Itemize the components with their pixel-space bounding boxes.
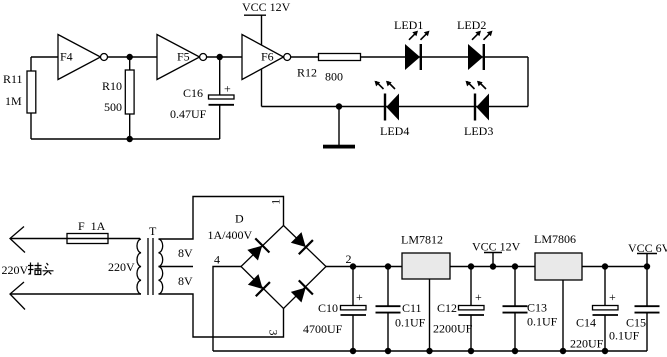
node C13 bottom <box>512 348 518 354</box>
svg-text:C12: C12 <box>437 301 457 315</box>
svg-text:T: T <box>149 224 157 238</box>
svg-text:LM7812: LM7812 <box>401 233 443 247</box>
svg-text:+: + <box>475 290 482 304</box>
svg-text:+: + <box>356 290 363 304</box>
svg-text:C16: C16 <box>183 86 203 100</box>
node C10 top <box>350 263 356 269</box>
svg-text:0.1UF: 0.1UF <box>609 329 640 343</box>
svg-text:220UF: 220UF <box>570 337 604 351</box>
node C13 top <box>512 263 518 269</box>
node C11 top <box>385 263 391 269</box>
LED LED1 <box>394 18 430 70</box>
svg-text:LED2: LED2 <box>457 18 486 32</box>
wire secondary bottom tap to bridge pin3 <box>159 294 284 337</box>
wire secondary top tap to bridge pin1 <box>159 197 284 240</box>
core <box>148 238 153 295</box>
svg-text:C11: C11 <box>402 301 422 315</box>
svg-text:0.1UF: 0.1UF <box>527 315 558 329</box>
svg-text:8V: 8V <box>178 246 193 260</box>
node VCC12 tap <box>490 263 496 269</box>
ground <box>323 107 355 149</box>
label 220V plug (220V insert-head) <box>2 263 54 278</box>
node C12 top <box>468 263 474 269</box>
svg-text:0.47UF: 0.47UF <box>170 107 207 121</box>
capacitor C15 <box>609 267 660 352</box>
diode bridge bottom-right <box>289 280 313 304</box>
svg-text:220V: 220V <box>108 260 135 274</box>
wire positive rail <box>326 266 647 268</box>
wire secondary centre tap stub <box>159 266 194 268</box>
wire F6 output to R12 <box>291 56 319 58</box>
wire F5 output to F6 input <box>207 56 242 58</box>
node LM7806 gnd <box>560 348 566 354</box>
node C14 top <box>602 263 608 269</box>
plug 220V prong lower <box>10 282 25 310</box>
primary coil <box>137 239 141 294</box>
LED LED3 <box>464 81 493 138</box>
svg-text:2200UF: 2200UF <box>433 322 473 336</box>
svg-text:R12: R12 <box>297 66 317 80</box>
svg-text:VCC 12V: VCC 12V <box>242 0 291 14</box>
svg-text:220V: 220V <box>2 263 29 277</box>
svg-text:C13: C13 <box>527 301 547 315</box>
node LM7812 gnd <box>426 348 432 354</box>
wire right side vertical <box>527 57 529 107</box>
regulator LM7812 <box>401 233 450 352</box>
LED LED2 <box>457 18 493 70</box>
diode bridge top-left <box>246 238 270 262</box>
node C14 bottom <box>602 348 608 354</box>
inverter F4 <box>58 35 108 80</box>
wire ground rail bottom <box>213 350 647 352</box>
capacitor C13 <box>503 267 558 352</box>
svg-text:LED3: LED3 <box>464 124 493 138</box>
svg-text:F5: F5 <box>177 50 190 64</box>
regulator LM7806 <box>534 232 582 351</box>
wire bridge pin4 to ground rail <box>213 267 241 352</box>
svg-text:F4: F4 <box>60 50 73 64</box>
inverter F5 <box>157 35 207 80</box>
power VCC 12V (top) <box>242 0 291 46</box>
node C11 bottom <box>385 348 391 354</box>
node junction at R10 top <box>127 54 133 60</box>
svg-text:R11: R11 <box>3 72 23 86</box>
svg-text:0.1UF: 0.1UF <box>395 316 426 330</box>
capacitor C14 <box>570 267 618 352</box>
node junction at R10 bottom <box>127 136 133 142</box>
node C15 top <box>644 263 650 269</box>
svg-text:+: + <box>224 82 231 96</box>
inverter F6 <box>242 35 291 80</box>
LED LED4 <box>375 81 410 138</box>
secondary coil <box>159 239 163 294</box>
svg-text:4: 4 <box>214 253 220 267</box>
power VCC 12V (rail) <box>472 240 521 267</box>
svg-text:D: D <box>235 212 244 226</box>
svg-text:+: + <box>609 290 616 304</box>
svg-text:F6: F6 <box>261 50 274 64</box>
wire top LED row <box>361 56 529 58</box>
bridge rectifier D <box>208 199 352 336</box>
svg-text:4700UF: 4700UF <box>303 322 343 336</box>
capacitor C12 <box>433 267 484 352</box>
svg-text:C15: C15 <box>626 316 646 330</box>
node junction at ground tap <box>336 103 342 109</box>
svg-text:1A/400V: 1A/400V <box>208 228 253 242</box>
resistor R10 <box>102 57 134 139</box>
wire mains lower <box>10 293 141 295</box>
svg-text:8V: 8V <box>178 274 193 288</box>
capacitor C11 <box>376 267 426 352</box>
svg-text:LED4: LED4 <box>380 124 409 138</box>
capacitor C16 <box>170 57 234 139</box>
svg-text:1: 1 <box>269 199 283 205</box>
transformer T <box>108 224 193 295</box>
node C12 bottom <box>468 348 474 354</box>
resistor R12 <box>297 54 361 84</box>
wire feedback bottom rail <box>31 138 220 140</box>
svg-text:500: 500 <box>104 100 122 114</box>
wire F4 input net <box>31 56 58 58</box>
power VCC 6V <box>628 241 667 267</box>
plug 220V prong upper <box>10 227 25 253</box>
svg-text:VCC 12V: VCC 12V <box>472 240 521 254</box>
wire F4 output to F5 input <box>108 56 158 58</box>
svg-text:C14: C14 <box>576 316 596 330</box>
svg-text:1M: 1M <box>5 94 22 108</box>
node junction at C16 top <box>217 54 223 60</box>
svg-text:800: 800 <box>325 70 343 84</box>
svg-text:LED1: LED1 <box>394 18 423 32</box>
svg-text:C10: C10 <box>318 301 338 315</box>
wire bottom LED row <box>262 106 529 108</box>
resistor R11 <box>3 57 36 139</box>
node C10 bottom <box>350 348 356 354</box>
wire mains upper <box>10 238 67 240</box>
diode bridge top-right <box>289 230 313 254</box>
svg-text:F 1A: F 1A <box>78 219 106 233</box>
svg-text:2: 2 <box>346 252 352 266</box>
diode bridge bottom-left <box>246 272 270 296</box>
svg-text:3: 3 <box>267 330 281 336</box>
svg-text:LM7806: LM7806 <box>534 232 576 246</box>
svg-text:R10: R10 <box>102 79 122 93</box>
fuse F 1A <box>67 219 140 244</box>
capacitor C10 <box>303 267 366 352</box>
wire F6 ground lead down <box>261 68 263 107</box>
